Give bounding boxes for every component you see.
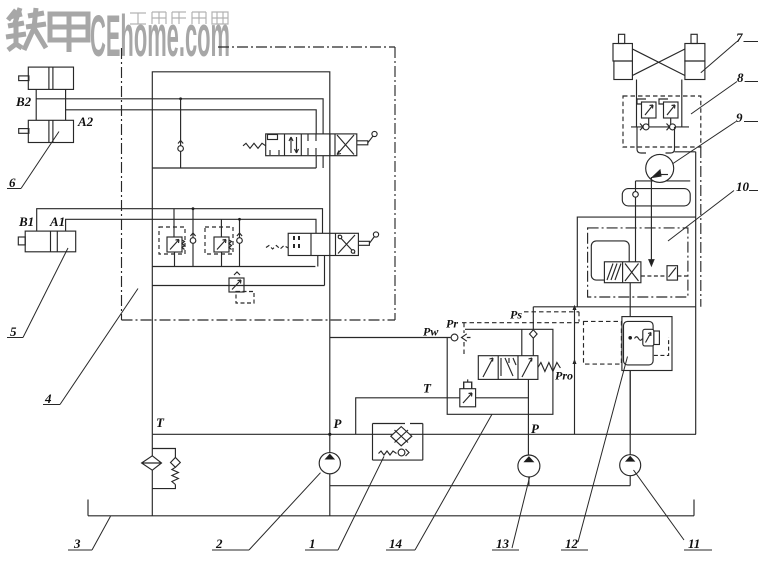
box 10 outer <box>577 217 696 307</box>
gallery line box8 <box>631 126 689 128</box>
travel valve in 10 <box>604 262 641 283</box>
char tie <box>6 8 26 50</box>
leader 5 <box>23 248 68 338</box>
svg-text:5: 5 <box>10 324 17 339</box>
pump 2 <box>329 434 331 452</box>
P line pump13 <box>527 379 529 455</box>
bypass relief of filter <box>152 449 175 458</box>
section2 tank line <box>152 266 315 268</box>
svg-text:7: 7 <box>736 30 743 45</box>
svg-text:9: 9 <box>736 110 743 125</box>
svg-text:11: 11 <box>688 536 700 551</box>
Ps feed line <box>532 307 534 356</box>
proportional valve 14 <box>478 356 538 380</box>
tank filter line <box>151 434 153 456</box>
filter <box>142 456 162 470</box>
svg-text:B2: B2 <box>15 94 32 109</box>
svg-text:Pw: Pw <box>423 325 439 339</box>
valve block 8 dashed <box>623 96 701 147</box>
svg-text:10: 10 <box>736 179 750 194</box>
motor tangent line <box>636 180 691 182</box>
watermark gongchengjixiewang <box>130 12 228 24</box>
svg-text:A2: A2 <box>77 114 94 129</box>
svg-text:14: 14 <box>389 536 403 551</box>
spring V1 <box>243 143 266 148</box>
svg-text:13: 13 <box>496 536 510 551</box>
svg-text:12: 12 <box>565 536 579 551</box>
wire relief feeds section2 <box>174 209 240 267</box>
svg-text:CEhome.com: CEhome.com <box>90 4 230 69</box>
pilot spring dashes V2 <box>266 246 288 250</box>
svg-text:Pr: Pr <box>446 317 458 331</box>
pump 13 <box>518 455 540 477</box>
check circle a <box>190 238 196 244</box>
char jia <box>50 14 88 52</box>
svg-text:A1: A1 <box>49 214 65 229</box>
svg-text:8: 8 <box>737 70 744 85</box>
svg-text:4: 4 <box>44 391 52 406</box>
watermark tiejia CEhome.com <box>6 4 230 69</box>
valve V1 directional 4/3 <box>266 134 357 156</box>
svg-text:B1: B1 <box>18 214 34 229</box>
wire section1 tank line <box>152 156 323 168</box>
wire W2 A2 line <box>66 110 317 134</box>
brake release line <box>675 151 696 153</box>
svg-text:Ps: Ps <box>510 308 522 322</box>
check valve section1 <box>178 146 184 152</box>
wires to valve 8 <box>637 80 682 97</box>
box 10 dashdot inner <box>588 228 688 297</box>
box 12 <box>622 317 672 371</box>
brake cylinder 7 left <box>613 34 632 79</box>
wire W1 B2 line <box>36 99 323 134</box>
wire section1 feed <box>180 99 182 168</box>
brake cylinder 7 right <box>685 34 705 79</box>
rail P bottom edge <box>152 433 696 435</box>
spring prop valve <box>538 363 561 372</box>
leader 6 <box>21 132 59 189</box>
tank rail <box>88 500 694 516</box>
Ps dashed line <box>524 312 579 322</box>
wire box8 internal feeds <box>637 96 682 127</box>
svg-text:T: T <box>156 415 165 430</box>
box 10 loop <box>591 241 629 280</box>
check 8a <box>643 124 649 130</box>
reducing valve 8b <box>659 99 678 127</box>
node circle <box>635 181 637 192</box>
cylinder pair 6 upper <box>19 67 74 142</box>
cross lines <box>632 49 685 76</box>
wire W3 B1 line <box>37 209 323 234</box>
motor 9 <box>646 154 674 182</box>
check circle b <box>237 238 243 244</box>
relief valve RV2 dashed box <box>205 227 233 254</box>
top feed line H1 <box>533 306 696 308</box>
pilot cap prop valve <box>464 379 472 388</box>
reducing valve 8a <box>637 99 656 127</box>
svg-text:1: 1 <box>309 536 316 551</box>
svg-text:6: 6 <box>9 175 16 190</box>
suction line <box>330 485 630 487</box>
pilot control box <box>447 329 553 414</box>
feed to travel valve <box>649 177 654 266</box>
lever V1 <box>357 136 373 145</box>
dash-dot boundary box 4 <box>122 47 396 320</box>
relief valve RV1 dashed box <box>159 227 185 254</box>
wire pump11 feed <box>629 283 631 317</box>
lever V2 <box>358 237 374 246</box>
check valve Pw <box>451 334 458 341</box>
T pilot line <box>356 398 460 435</box>
regulator in box 12 <box>624 321 669 365</box>
dashed box LS <box>584 321 622 364</box>
relief valve RV1 <box>167 237 182 252</box>
wire W4 A1 line <box>66 219 316 233</box>
relief in 10 <box>641 266 688 280</box>
Pw line <box>330 337 451 339</box>
wires motor ports <box>637 127 675 153</box>
node W1 junction <box>179 97 182 100</box>
pilot check small valve <box>229 278 244 292</box>
svg-text:Pro: Pro <box>555 369 573 383</box>
box 14 oil unit <box>373 424 423 461</box>
valve V2 directional <box>288 233 358 255</box>
port line <box>521 329 523 355</box>
pump 11 <box>629 371 631 455</box>
valve V2 outlets <box>318 256 325 286</box>
svg-text:P: P <box>531 421 540 436</box>
svg-text:3: 3 <box>73 536 81 551</box>
svg-text:P: P <box>334 416 343 431</box>
svg-text:2: 2 <box>215 536 223 551</box>
line to pilot check <box>152 285 324 287</box>
relief valve RV2 <box>214 237 229 252</box>
right main vertical <box>695 152 697 435</box>
cylinder 5 <box>18 231 75 252</box>
motor loop lower box <box>622 189 690 206</box>
check 8b <box>670 124 676 130</box>
Pr dashed line <box>462 322 579 324</box>
right tall box <box>574 307 576 435</box>
main valve block box <box>152 72 329 435</box>
leader 4 <box>60 289 138 405</box>
svg-text:T: T <box>423 381 432 396</box>
pilot reducing valve 14 <box>460 389 476 407</box>
